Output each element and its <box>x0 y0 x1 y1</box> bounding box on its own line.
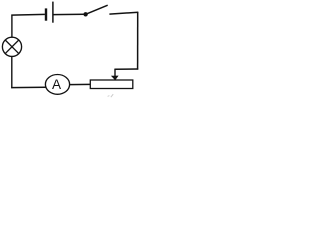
battery cell short thick plate <box>45 8 47 20</box>
svg-text:A: A <box>52 77 62 92</box>
lamp L1 cross diagonal 2 <box>5 40 19 54</box>
wire top-left horizontal <box>11 13 45 16</box>
ammeter A1 circle <box>45 75 69 95</box>
wire right vertical <box>137 12 139 70</box>
wire top-right horizontal (switch fixed contact) <box>109 12 138 14</box>
rheostat wiper arrowhead <box>111 76 119 81</box>
switch S1 pivot dot <box>83 12 87 16</box>
wire ammeter to rheostat <box>69 83 90 85</box>
faint print smudge below rheostat <box>108 94 114 97</box>
switch S1 lever <box>86 5 108 14</box>
wire left vertical lower <box>11 56 13 88</box>
battery cell long plate <box>52 2 54 23</box>
lamp L1 cross diagonal 1 <box>5 40 19 54</box>
wire battery to switch <box>54 13 86 15</box>
rheostat R1 body <box>90 80 133 89</box>
lamp L1 circle <box>2 37 21 56</box>
wire horizontal above rheostat <box>114 68 138 70</box>
wire left vertical upper <box>11 15 13 38</box>
rheostat wiper arrow shaft <box>114 69 116 77</box>
wire bottom-left horizontal <box>11 86 46 88</box>
